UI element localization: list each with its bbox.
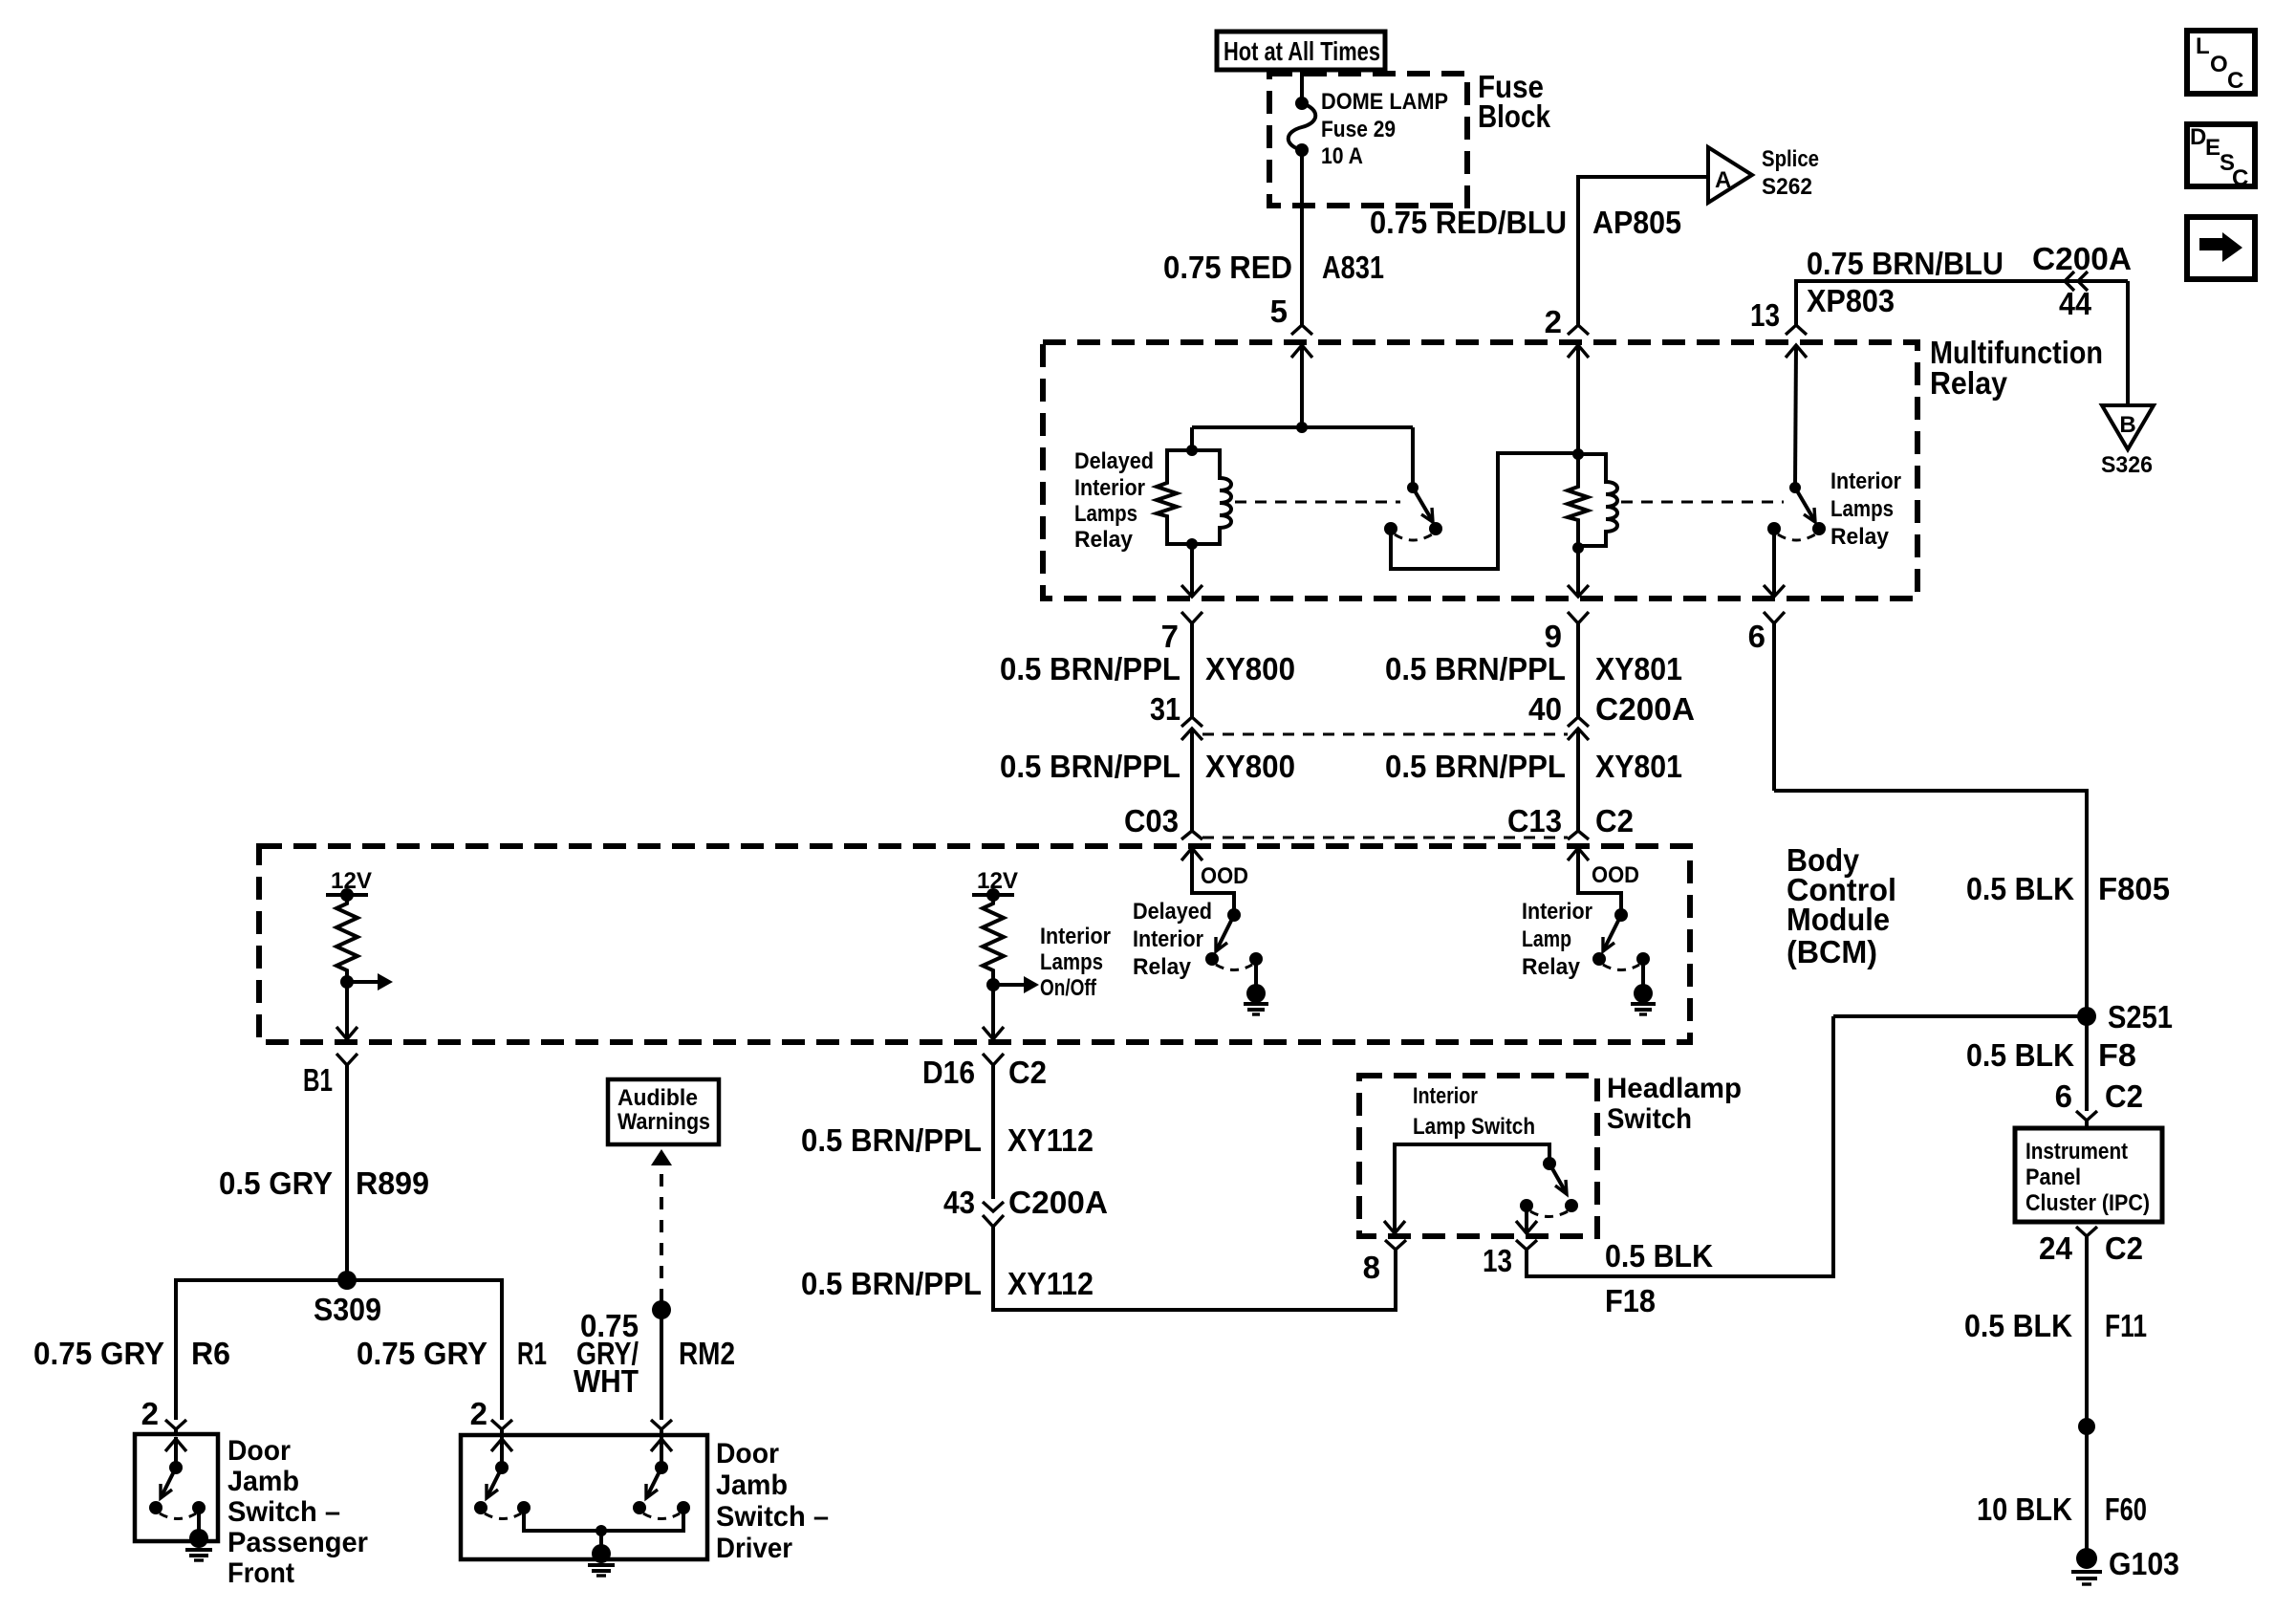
svg-text:B: B [2119, 412, 2135, 438]
svg-text:0.5 BRN/PPL: 0.5 BRN/PPL [801, 1122, 982, 1158]
svg-text:Fuse 29: Fuse 29 [1321, 117, 1396, 142]
svg-text:Delayed: Delayed [1133, 899, 1212, 925]
svg-text:Interior: Interior [1413, 1083, 1478, 1109]
svg-text:F11: F11 [2105, 1308, 2147, 1343]
svg-text:Jamb: Jamb [716, 1469, 788, 1501]
svg-text:DOME LAMP: DOME LAMP [1321, 89, 1448, 115]
svg-text:XY112: XY112 [1007, 1266, 1094, 1301]
svg-text:Warnings: Warnings [617, 1109, 710, 1135]
svg-text:Block: Block [1478, 98, 1551, 134]
svg-text:2: 2 [1545, 304, 1562, 339]
svg-text:L: L [2196, 33, 2210, 59]
svg-text:0.5 BLK: 0.5 BLK [1966, 1037, 2074, 1073]
svg-text:C: C [2232, 165, 2248, 191]
svg-text:Interior: Interior [1522, 899, 1592, 925]
svg-text:Splice: Splice [1762, 146, 1819, 172]
svg-text:Door: Door [716, 1438, 779, 1469]
svg-text:R6: R6 [191, 1336, 230, 1371]
svg-text:13: 13 [1483, 1243, 1512, 1278]
svg-text:C2: C2 [1595, 803, 1634, 838]
svg-text:C200A: C200A [1595, 691, 1695, 727]
svg-text:10 BLK: 10 BLK [1977, 1491, 2072, 1527]
svg-text:(BCM): (BCM) [1787, 934, 1877, 969]
svg-text:Relay: Relay [1074, 527, 1134, 553]
svg-text:C2: C2 [2105, 1078, 2143, 1114]
svg-text:Interior: Interior [1133, 926, 1203, 952]
svg-text:0.5 BLK: 0.5 BLK [1966, 871, 2074, 906]
svg-text:Lamps: Lamps [1830, 496, 1894, 522]
svg-text:C200A: C200A [1008, 1185, 1108, 1220]
svg-text:XY800: XY800 [1205, 749, 1295, 784]
svg-text:7: 7 [1161, 619, 1179, 654]
svg-text:XY801: XY801 [1595, 749, 1682, 784]
svg-text:5: 5 [1270, 294, 1288, 329]
svg-text:G103: G103 [2109, 1546, 2179, 1581]
svg-text:Jamb: Jamb [227, 1466, 299, 1497]
svg-text:0.75 GRY: 0.75 GRY [33, 1336, 164, 1371]
svg-text:0.5 BRN/PPL: 0.5 BRN/PPL [1385, 651, 1566, 686]
svg-text:S251: S251 [2108, 999, 2173, 1034]
svg-text:Relay: Relay [1930, 365, 2008, 401]
svg-text:A: A [1715, 167, 1731, 193]
svg-text:Lamp Switch: Lamp Switch [1413, 1114, 1535, 1140]
svg-text:D16: D16 [922, 1055, 975, 1090]
svg-text:0.5 BLK: 0.5 BLK [1964, 1308, 2072, 1343]
svg-text:Lamps: Lamps [1074, 501, 1137, 527]
svg-text:F60: F60 [2105, 1491, 2147, 1527]
svg-text:Lamp: Lamp [1522, 926, 1571, 952]
svg-text:Switch –: Switch – [716, 1501, 829, 1533]
svg-text:C13: C13 [1507, 803, 1562, 838]
svg-text:C2: C2 [2105, 1230, 2143, 1266]
svg-text:E: E [2205, 135, 2220, 161]
svg-text:Audible: Audible [617, 1085, 698, 1111]
svg-text:Panel: Panel [2025, 1165, 2081, 1190]
svg-text:0.5 BRN/PPL: 0.5 BRN/PPL [1000, 749, 1180, 784]
svg-text:Instrument: Instrument [2025, 1139, 2128, 1165]
svg-text:Driver: Driver [716, 1533, 792, 1564]
svg-text:9: 9 [1545, 619, 1562, 654]
svg-text:XY801: XY801 [1595, 651, 1682, 686]
svg-text:13: 13 [1750, 297, 1780, 333]
svg-text:43: 43 [943, 1185, 975, 1220]
svg-text:0.75 RED: 0.75 RED [1163, 250, 1292, 285]
svg-text:Passenger: Passenger [227, 1527, 368, 1558]
svg-text:R1: R1 [517, 1336, 547, 1371]
svg-text:Front: Front [227, 1557, 294, 1589]
svg-text:Door: Door [227, 1435, 291, 1467]
svg-text:0.5 BRN/PPL: 0.5 BRN/PPL [1000, 651, 1180, 686]
svg-text:S309: S309 [314, 1292, 381, 1327]
svg-text:Relay: Relay [1830, 524, 1890, 550]
svg-text:2: 2 [141, 1396, 159, 1431]
svg-text:OOD: OOD [1592, 862, 1639, 888]
svg-text:40: 40 [1528, 691, 1562, 727]
svg-text:10 A: 10 A [1321, 143, 1363, 169]
svg-text:Lamps: Lamps [1040, 949, 1103, 975]
svg-text:C: C [2227, 68, 2243, 94]
svg-text:Cluster (IPC): Cluster (IPC) [2025, 1190, 2150, 1216]
svg-text:S262: S262 [1762, 174, 1812, 200]
svg-text:Interior: Interior [1830, 468, 1901, 494]
svg-text:24: 24 [2039, 1230, 2073, 1266]
svg-text:2: 2 [470, 1396, 487, 1431]
svg-text:AP805: AP805 [1592, 205, 1681, 240]
svg-text:Relay: Relay [1522, 954, 1581, 980]
svg-text:WHT: WHT [574, 1363, 639, 1399]
svg-text:6: 6 [2055, 1078, 2072, 1114]
svg-text:44: 44 [2059, 286, 2092, 321]
svg-text:C200A: C200A [2032, 241, 2132, 276]
svg-text:On/Off: On/Off [1040, 975, 1097, 1001]
svg-text:O: O [2210, 52, 2228, 77]
svg-text:Switch: Switch [1607, 1103, 1692, 1135]
svg-text:0.5 BLK: 0.5 BLK [1605, 1238, 1713, 1274]
svg-text:Hot at All Times: Hot at All Times [1224, 36, 1380, 66]
svg-text:D: D [2190, 124, 2206, 150]
svg-text:RM2: RM2 [679, 1336, 735, 1371]
svg-text:0.5 BRN/PPL: 0.5 BRN/PPL [801, 1266, 982, 1301]
svg-text:F8: F8 [2098, 1037, 2136, 1073]
svg-text:C03: C03 [1124, 803, 1179, 838]
svg-text:31: 31 [1150, 691, 1180, 727]
svg-text:Switch –: Switch – [227, 1496, 340, 1528]
svg-text:8: 8 [1363, 1250, 1380, 1285]
svg-text:B1: B1 [303, 1062, 333, 1098]
svg-text:XY112: XY112 [1007, 1122, 1094, 1158]
svg-text:Module: Module [1787, 902, 1890, 937]
svg-text:Headlamp: Headlamp [1607, 1073, 1742, 1104]
svg-text:XP803: XP803 [1807, 283, 1895, 318]
svg-text:Relay: Relay [1133, 954, 1192, 980]
svg-text:R899: R899 [356, 1165, 429, 1201]
svg-text:0.5 BRN/PPL: 0.5 BRN/PPL [1385, 749, 1566, 784]
svg-text:6: 6 [1748, 619, 1765, 654]
svg-text:0.75 GRY: 0.75 GRY [357, 1336, 487, 1371]
svg-text:F805: F805 [2098, 871, 2170, 906]
svg-text:C2: C2 [1008, 1055, 1047, 1090]
svg-text:F18: F18 [1605, 1283, 1656, 1318]
svg-text:Interior: Interior [1040, 924, 1111, 949]
svg-text:Interior: Interior [1074, 475, 1145, 501]
svg-text:0.75 RED/BLU: 0.75 RED/BLU [1370, 205, 1567, 240]
svg-text:A831: A831 [1322, 250, 1384, 285]
svg-text:Delayed: Delayed [1074, 448, 1154, 474]
svg-text:XY800: XY800 [1205, 651, 1295, 686]
svg-text:0.5 GRY: 0.5 GRY [219, 1165, 333, 1201]
svg-text:S326: S326 [2101, 452, 2153, 478]
svg-text:0.75 BRN/BLU: 0.75 BRN/BLU [1807, 246, 2004, 281]
svg-text:OOD: OOD [1201, 863, 1248, 889]
